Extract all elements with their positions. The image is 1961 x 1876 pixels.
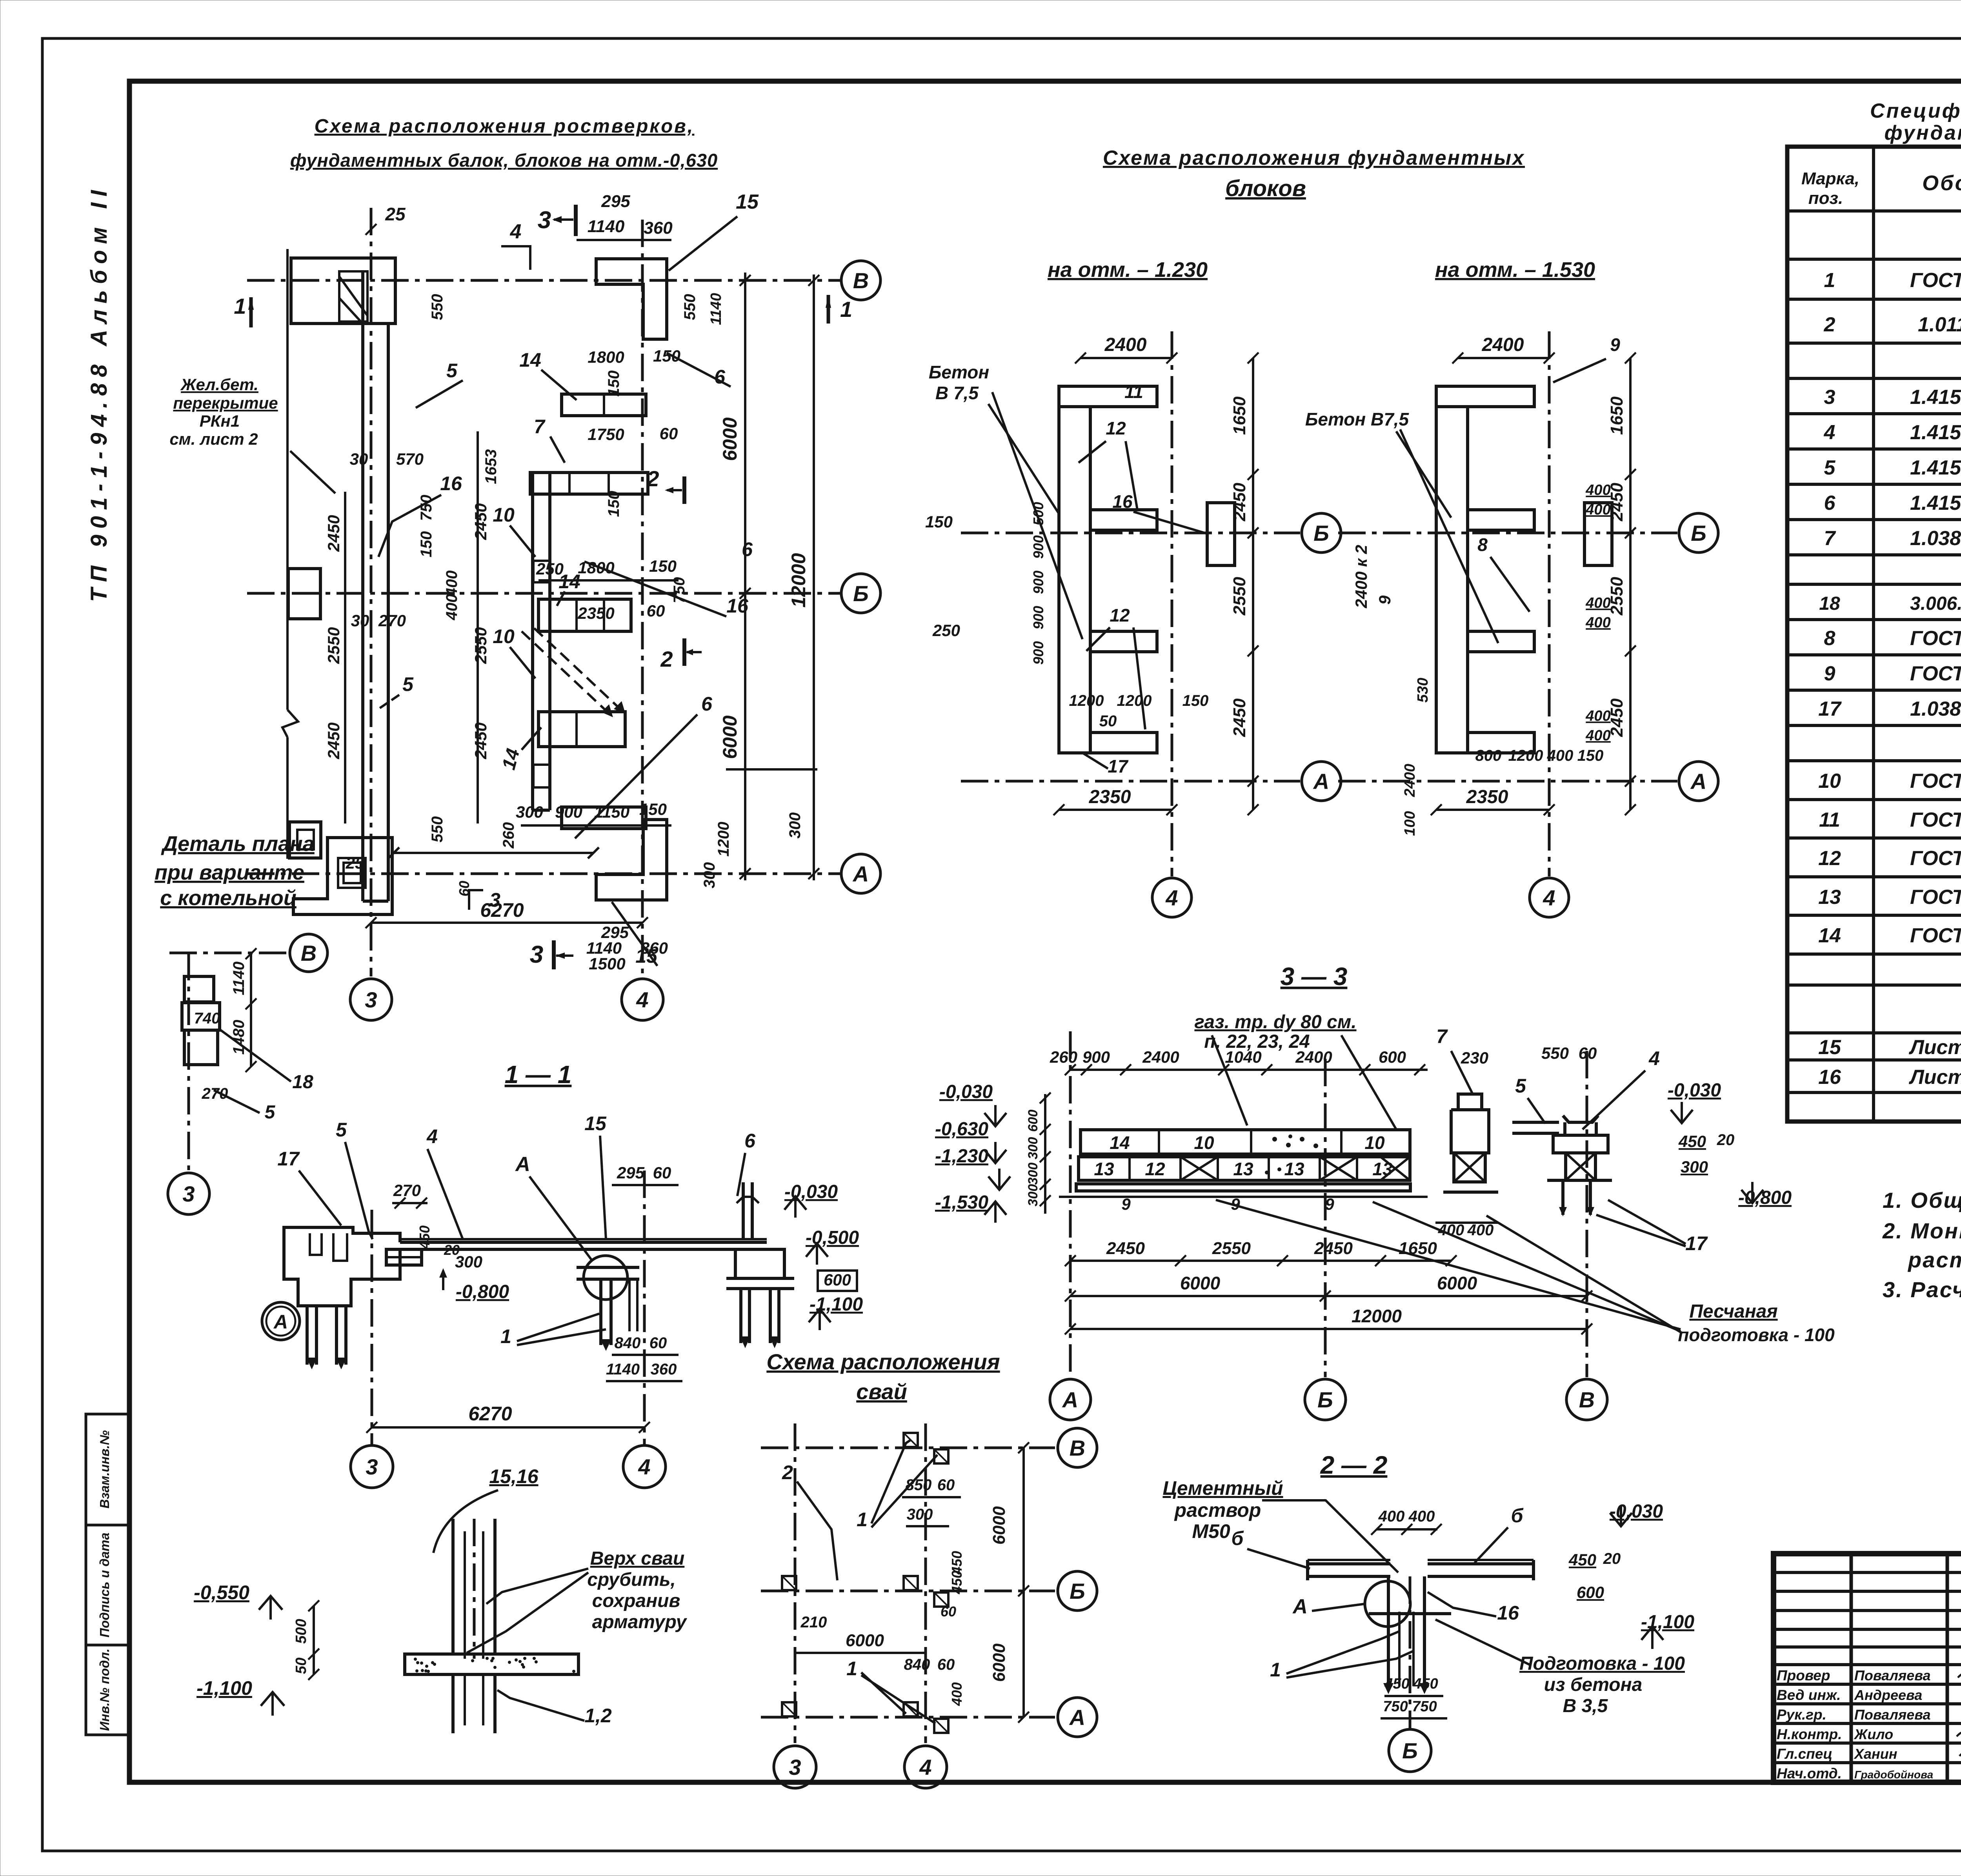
svg-text:Бетон: Бетон [929,362,989,382]
svg-text:1,2: 1,2 [584,1705,612,1727]
svg-text:-0,800: -0,800 [1738,1187,1792,1208]
svg-text:2350: 2350 [1089,787,1131,807]
svg-text:3: 3 [789,1755,801,1780]
svg-text:260: 260 [500,822,517,849]
svg-text:ТП 901-1-94.88 Альбом II: ТП 901-1-94.88 Альбом II [86,189,112,602]
svg-text:раствор: раствор [1174,1499,1261,1521]
svg-text:-1,230: -1,230 [935,1146,988,1167]
svg-text:Рук.гр.: Рук.гр. [1777,1707,1826,1723]
svg-text:450: 450 [1678,1132,1706,1151]
svg-text:А: А [1062,1387,1078,1412]
svg-text:В: В [301,941,317,965]
svg-text:-0,030: -0,030 [1668,1080,1721,1101]
svg-text:Н.контр.: Н.контр. [1777,1726,1842,1742]
svg-text:1650: 1650 [1607,396,1626,435]
svg-text:4: 4 [510,220,522,243]
svg-text:11: 11 [1124,382,1143,402]
svg-text:500: 500 [1030,502,1046,525]
svg-text:4: 4 [426,1125,438,1147]
svg-text:400: 400 [1467,1222,1494,1239]
svg-text:13: 13 [1372,1159,1393,1179]
svg-text:на отм. – 1.230: на отм. – 1.230 [1048,258,1208,282]
svg-text:Схема расположения: Схема расположения [766,1349,1000,1374]
svg-text:300: 300 [455,1252,482,1271]
svg-text:1.038.1-1, вып. 2: 1.038.1-1, вып. 2 [1910,698,1961,720]
svg-text:5: 5 [402,673,414,695]
svg-text:Нач.отд.: Нач.отд. [1777,1765,1842,1781]
svg-text:5: 5 [1515,1075,1526,1097]
svg-text:3: 3 [538,207,551,234]
svg-text:2350: 2350 [1466,787,1508,807]
svg-text:Верх сваи: Верх сваи [590,1548,685,1569]
svg-text:15: 15 [1818,1036,1841,1059]
svg-text:450: 450 [417,1225,433,1249]
svg-text:400: 400 [1585,727,1610,744]
svg-text:20: 20 [1717,1131,1735,1149]
svg-text:ГОСТ 13579 - 78*: ГОСТ 13579 - 78* [1910,886,1961,909]
svg-text:газ. тр. dу 80 см.: газ. тр. dу 80 см. [1194,1012,1356,1033]
svg-text:11: 11 [1819,809,1840,831]
svg-text:2: 2 [1824,313,1835,336]
svg-text:300: 300 [1026,1137,1041,1160]
svg-text:см. лист 2: см. лист 2 [169,430,258,448]
svg-text:300: 300 [1681,1158,1708,1176]
svg-text:400: 400 [949,1682,965,1706]
svg-text:16: 16 [726,595,749,617]
svg-text:16: 16 [1112,491,1133,512]
svg-text:15: 15 [584,1113,607,1134]
svg-text:20: 20 [1603,1550,1621,1567]
svg-text:15: 15 [635,945,658,967]
svg-text:13: 13 [1818,886,1841,909]
svg-text:12: 12 [1110,605,1130,625]
svg-text:400: 400 [1378,1508,1405,1525]
svg-text:2400: 2400 [1104,334,1147,355]
svg-text:400: 400 [1585,482,1610,498]
svg-text:150: 150 [639,800,667,818]
svg-text:5: 5 [446,360,458,382]
svg-text:Жел.бет.: Жел.бет. [180,375,258,394]
svg-text:А: А [273,1311,288,1333]
svg-text:16: 16 [1497,1602,1519,1624]
svg-text:поз.: поз. [1808,189,1843,208]
svg-text:Градобойнова: Градобойнова [1854,1769,1933,1781]
svg-text:Поваляева: Поваляева [1854,1707,1931,1723]
svg-text:900: 900 [1030,641,1046,665]
svg-text:13: 13 [1284,1159,1304,1179]
svg-text:Б: Б [1313,521,1329,545]
svg-text:1.415 - 1, вып. 1: 1.415 - 1, вып. 1 [1910,456,1961,479]
svg-text:б: б [1511,1505,1524,1527]
svg-text:2450: 2450 [324,722,343,759]
svg-text:В: В [853,268,869,293]
svg-text:550: 550 [429,816,446,843]
svg-text:-0,030: -0,030 [1610,1501,1663,1522]
svg-text:-1,530: -1,530 [935,1192,988,1213]
svg-text:12000: 12000 [788,553,810,607]
svg-text:60: 60 [649,1334,667,1352]
svg-text:400: 400 [443,571,460,597]
svg-text:10: 10 [493,504,515,526]
svg-text:Марка,: Марка, [1801,169,1859,188]
svg-text:10: 10 [1194,1133,1214,1153]
svg-text:18: 18 [292,1072,313,1093]
svg-text:3. Расчетная нагрузка на св: 3. Расчетная нагрузка на сваю Nсв = 18,0… [1883,1277,1961,1302]
svg-text:ГОСТ 13580 - 85: ГОСТ 13580 - 85 [1910,662,1961,685]
svg-text:17: 17 [1818,698,1842,720]
svg-text:1: 1 [840,297,852,322]
svg-text:230: 230 [1461,1049,1488,1067]
svg-text:1: 1 [500,1325,511,1347]
svg-text:60: 60 [1579,1044,1597,1062]
svg-text:10: 10 [1818,770,1841,793]
svg-text:60: 60 [653,1163,671,1182]
svg-text:840: 840 [904,1656,930,1673]
svg-text:б: б [1232,1527,1244,1549]
svg-text:295: 295 [617,1163,645,1182]
svg-text:1040: 1040 [1225,1048,1261,1066]
svg-text:2450: 2450 [1230,483,1249,522]
svg-text:50: 50 [293,1658,309,1674]
svg-text:300: 300 [516,803,543,821]
svg-text:А: А [852,862,869,886]
svg-text:1: 1 [1270,1659,1281,1681]
svg-text:3: 3 [489,889,500,911]
svg-text:6000: 6000 [1180,1273,1221,1293]
svg-text:9: 9 [1824,662,1835,685]
svg-text:Деталь плана: Деталь плана [161,832,315,856]
svg-text:А: А [1069,1705,1085,1730]
svg-text:100: 100 [1402,811,1418,836]
svg-text:срубить,: срубить, [587,1569,676,1590]
svg-text:3: 3 [182,1182,195,1206]
svg-text:сохранив: сохранив [592,1591,680,1611]
svg-text:1140: 1140 [708,293,724,325]
svg-text:6000: 6000 [719,715,741,759]
svg-text:900: 900 [555,803,582,821]
svg-text:1: 1 [857,1509,868,1531]
svg-text:1. Общие примечания смотреть: 1. Общие примечания смотреть лист 1 [1883,1188,1961,1212]
svg-text:400: 400 [1547,747,1574,764]
svg-text:5: 5 [336,1119,347,1141]
svg-text:60: 60 [456,881,472,896]
svg-text:2450: 2450 [471,503,490,540]
svg-text:7: 7 [1436,1025,1448,1047]
svg-text:270: 270 [202,1085,228,1102]
svg-text:300: 300 [1026,1184,1041,1207]
svg-text:-0,500: -0,500 [806,1227,859,1248]
svg-text:1.038.1-1, вып. 1: 1.038.1-1, вып. 1 [1910,527,1961,550]
svg-text:7: 7 [1824,527,1836,550]
svg-text:А: А [515,1153,530,1176]
svg-text:4: 4 [1543,885,1555,910]
svg-text:-1,100: -1,100 [196,1677,252,1699]
svg-text:на отм. – 1.530: на отм. – 1.530 [1435,258,1595,282]
svg-text:550: 550 [429,294,446,320]
svg-text:6000: 6000 [846,1631,884,1650]
svg-text:А: А [1292,1595,1308,1618]
svg-text:900: 900 [1082,1048,1110,1066]
svg-text:1650: 1650 [1230,396,1249,435]
svg-text:1140: 1140 [606,1361,640,1378]
svg-text:-0,630: -0,630 [935,1119,988,1140]
svg-text:14: 14 [1110,1133,1130,1153]
svg-text:с котельной: с котельной [160,886,297,910]
svg-text:60: 60 [647,602,665,620]
svg-text:17: 17 [277,1148,300,1170]
svg-text:В: В [1070,1436,1085,1460]
svg-text:-0,030: -0,030 [939,1082,993,1102]
svg-text:М50: М50 [1192,1520,1230,1542]
svg-text:5: 5 [265,1102,276,1123]
svg-text:В 3,5: В 3,5 [1563,1696,1608,1716]
svg-text:ГОСТ 13579 - 78*: ГОСТ 13579 - 78* [1910,770,1961,793]
svg-text:1 — 1: 1 — 1 [505,1060,572,1089]
svg-text:25: 25 [346,854,364,872]
svg-text:800: 800 [1475,747,1502,764]
svg-text:Вед инж.: Вед инж. [1777,1687,1841,1703]
svg-text:14: 14 [498,746,524,772]
svg-text:8: 8 [1477,534,1488,555]
svg-text:1200: 1200 [1117,692,1152,709]
svg-text:150: 150 [605,371,622,397]
svg-text:А: А [1690,769,1706,794]
svg-text:2450: 2450 [1106,1239,1145,1258]
svg-text:Гл.спец: Гл.спец [1777,1746,1832,1762]
svg-text:2450: 2450 [1314,1239,1353,1258]
svg-text:5: 5 [1824,456,1836,479]
svg-text:7: 7 [534,416,546,438]
svg-text:9: 9 [1121,1195,1131,1213]
svg-text:15: 15 [736,191,759,213]
svg-text:Жило: Жило [1854,1726,1893,1742]
svg-text:1500: 1500 [589,954,625,973]
svg-text:2400: 2400 [1482,334,1524,355]
svg-text:6: 6 [1824,492,1836,514]
svg-text:6270: 6270 [480,899,524,921]
svg-text:Поваляева: Поваляева [1854,1667,1931,1683]
svg-text:Андреева: Андреева [1854,1687,1922,1703]
svg-text:750: 750 [1412,1698,1437,1715]
svg-text:6: 6 [744,1130,756,1152]
svg-text:2: 2 [782,1462,793,1483]
svg-text:6000: 6000 [719,417,741,461]
svg-text:15,16: 15,16 [489,1465,538,1487]
svg-text:12: 12 [1106,418,1126,438]
svg-text:450: 450 [1384,1676,1409,1692]
svg-text:ГОСТ 13579 - 78*: ГОСТ 13579 - 78* [1910,809,1961,831]
svg-text:1140: 1140 [230,962,247,995]
svg-text:6000: 6000 [990,1506,1009,1545]
svg-text:Провер: Провер [1777,1667,1830,1683]
svg-text:Песчаная: Песчаная [1689,1301,1777,1322]
svg-text:1.415 - 1, вып. 1: 1.415 - 1, вып. 1 [1910,386,1961,409]
svg-text:400: 400 [1585,595,1610,611]
svg-text:600: 600 [824,1271,851,1289]
svg-text:210: 210 [800,1614,827,1631]
svg-text:150: 150 [649,557,677,575]
svg-text:2450: 2450 [471,722,490,759]
svg-text:400: 400 [1585,502,1610,518]
svg-text:4: 4 [636,987,648,1012]
svg-text:260: 260 [1050,1048,1077,1066]
svg-text:при варианте: при варианте [155,861,304,884]
svg-text:блоков: блоков [1225,176,1306,201]
svg-text:Б: Б [1317,1387,1333,1412]
svg-text:Б: Б [1402,1738,1418,1763]
svg-text:свай: свай [856,1379,907,1404]
svg-text:750: 750 [1383,1698,1408,1715]
svg-text:1200: 1200 [1069,692,1104,709]
svg-text:9: 9 [1375,595,1394,605]
svg-text:Цементный: Цементный [1162,1477,1283,1499]
svg-text:1800: 1800 [578,558,614,577]
svg-text:Обозначение: Обозначение [1922,171,1961,195]
svg-text:900: 900 [1030,571,1046,594]
svg-text:из бетона: из бетона [1544,1674,1643,1695]
svg-text:17: 17 [1108,756,1129,776]
svg-text:12000: 12000 [1352,1306,1402,1326]
svg-text:Б: Б [853,581,869,606]
svg-text:6000: 6000 [990,1643,1009,1682]
svg-text:1: 1 [846,1658,857,1680]
svg-text:550: 550 [1541,1044,1569,1062]
svg-text:360: 360 [644,218,673,238]
svg-text:300: 300 [786,813,804,839]
svg-text:270: 270 [393,1181,421,1200]
svg-text:1.011.1 - 7: 1.011.1 - 7 [1918,313,1961,336]
svg-text:2450: 2450 [324,515,343,552]
svg-text:2400 к 2: 2400 к 2 [1352,545,1370,608]
svg-text:2: 2 [660,647,673,671]
svg-text:900: 900 [1030,535,1046,559]
svg-text:фундаментных балок, блоков,: фундаментных балок, блоков, свай. [1885,122,1961,144]
svg-text:-0,800: -0,800 [456,1282,509,1302]
svg-text:60: 60 [937,1476,955,1494]
svg-text:270: 270 [378,611,406,630]
svg-text:РКн1: РКн1 [200,412,240,430]
svg-text:2450: 2450 [1230,698,1249,737]
svg-text:6: 6 [701,693,713,715]
svg-text:4: 4 [1824,421,1835,444]
svg-text:3: 3 [365,987,377,1012]
svg-text:1200: 1200 [1508,747,1543,764]
svg-text:4: 4 [1648,1047,1660,1069]
svg-text:2: 2 [646,466,659,491]
svg-text:150: 150 [605,491,622,517]
svg-text:17: 17 [1685,1232,1708,1254]
svg-text:Схема расположения ростверков,: Схема расположения ростверков, [315,116,695,137]
svg-text:В: В [1579,1387,1595,1412]
svg-text:840: 840 [615,1334,641,1352]
svg-text:450: 450 [1413,1676,1438,1692]
svg-text:10: 10 [493,625,515,647]
svg-text:295: 295 [601,192,630,211]
svg-text:150: 150 [653,347,680,365]
svg-text:Схема расположения фундаментн: Схема расположения фундаментных [1103,147,1525,169]
svg-text:360: 360 [651,1361,677,1378]
svg-text:А: А [1313,769,1329,794]
svg-text:1653: 1653 [482,449,500,484]
svg-text:1.415 - 1, вып. 1: 1.415 - 1, вып. 1 [1910,492,1961,514]
svg-text:150: 150 [925,513,953,531]
svg-text:фундаментных балок, блоков на: фундаментных балок, блоков на отм.-0,630 [290,150,718,171]
svg-text:Подготовка - 100: Подготовка - 100 [1519,1653,1685,1674]
svg-text:2550: 2550 [1230,577,1249,616]
svg-text:740: 740 [194,1010,220,1027]
svg-text:16: 16 [440,473,462,494]
svg-text:2400: 2400 [1402,764,1418,798]
svg-text:3.006.1-2/82 вып. 1-2: 3.006.1-2/82 вып. 1-2 [1910,593,1961,614]
svg-text:арматуру: арматуру [592,1612,688,1632]
svg-text:3: 3 [530,941,543,968]
svg-text:Взам.инв.№: Взам.инв.№ [97,1430,112,1509]
svg-text:400: 400 [443,594,460,621]
svg-text:530: 530 [1415,678,1431,702]
svg-text:2550: 2550 [1212,1239,1251,1258]
svg-text:ГОСТ 13579 - 78*: ГОСТ 13579 - 78* [1910,847,1961,870]
svg-text:Лист 18: Лист 18 [1908,1066,1961,1089]
svg-text:12: 12 [1145,1159,1165,1179]
svg-text:ГОСТ 13579 - 78*: ГОСТ 13579 - 78* [1910,924,1961,947]
svg-text:300: 300 [1026,1163,1041,1185]
svg-text:400: 400 [1408,1508,1435,1525]
svg-text:25: 25 [385,204,406,224]
svg-text:50: 50 [1099,713,1117,730]
svg-text:6: 6 [714,366,726,388]
svg-text:ГОСТ 19804.1-79*: ГОСТ 19804.1-79* [1910,269,1961,292]
svg-text:2400: 2400 [1142,1048,1179,1066]
svg-text:900: 900 [1030,606,1046,629]
svg-text:14: 14 [1818,924,1841,947]
svg-text:550: 550 [681,294,699,320]
svg-text:600: 600 [1379,1048,1406,1066]
svg-text:60: 60 [940,1603,956,1620]
svg-text:растворе М50 с перевязкой: растворе М50 с перевязкой швов [1907,1247,1961,1272]
svg-text:3 — 3: 3 — 3 [1281,962,1348,991]
svg-text:2350: 2350 [577,604,614,622]
svg-text:Спецификация к схемам распо: Спецификация к схемам расположения роств… [1870,100,1961,122]
svg-text:60: 60 [937,1656,955,1673]
svg-text:570: 570 [396,450,424,468]
svg-text:600: 600 [1026,1110,1041,1132]
svg-text:подготовка - 100: подготовка - 100 [1678,1325,1835,1345]
svg-text:1.415 - 1, вып. 1: 1.415 - 1, вып. 1 [1910,421,1961,444]
svg-text:8: 8 [1824,627,1835,650]
svg-text:Бетон В7,5: Бетон В7,5 [1305,409,1410,429]
svg-text:16: 16 [1818,1066,1841,1089]
svg-text:600: 600 [1577,1583,1604,1602]
svg-text:2550: 2550 [324,627,343,664]
svg-text:2400: 2400 [1295,1048,1332,1066]
svg-text:9: 9 [1610,334,1620,355]
svg-text:30: 30 [350,450,368,468]
svg-text:Лист 18: Лист 18 [1908,1036,1961,1059]
svg-text:-0,550: -0,550 [194,1582,249,1603]
svg-text:500: 500 [293,1619,309,1643]
svg-text:450: 450 [1568,1551,1596,1569]
svg-text:450: 450 [949,1571,965,1594]
svg-text:150: 150 [1577,747,1604,764]
svg-text:13: 13 [1094,1159,1114,1179]
svg-text:400: 400 [1585,614,1610,631]
svg-text:В 7,5: В 7,5 [935,383,979,403]
svg-text:1200: 1200 [715,822,732,857]
svg-text:250: 250 [932,621,960,640]
svg-text:перекрытие: перекрытие [173,394,278,412]
svg-text:3: 3 [366,1454,378,1479]
svg-text:1150: 1150 [594,803,629,821]
